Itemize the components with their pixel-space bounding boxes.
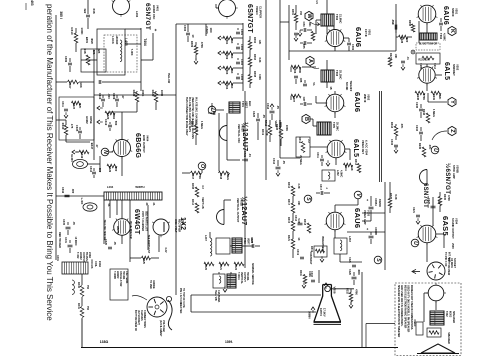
svg-text:FOCUS: FOCUS bbox=[90, 260, 93, 269]
svg-text:100: 100 bbox=[114, 167, 118, 172]
svg-text:TO 2ND: TO 2ND bbox=[149, 280, 152, 289]
trap box L302 bbox=[322, 170, 335, 181]
box peaking L303 bbox=[334, 238, 347, 254]
wire horizontal y51 IF strip B+ bbox=[289, 50, 396, 52]
svg-text:VERTICAL OSC: VERTICAL OSC bbox=[237, 124, 241, 143]
svg-text:IN LATE (801 CHASSIS) SETS: IN LATE (801 CHASSIS) SETS bbox=[188, 97, 191, 132]
svg-text:K: K bbox=[449, 29, 455, 33]
svg-text:VOLTAGE): VOLTAGE) bbox=[162, 320, 165, 332]
svg-text:1.5: 1.5 bbox=[315, 0, 319, 4]
svg-text:VERT: VERT bbox=[244, 101, 248, 108]
svg-text:100: 100 bbox=[405, 38, 409, 43]
wire 6AL5 right stub bbox=[436, 74, 442, 76]
svg-text:C412: C412 bbox=[104, 119, 108, 126]
resistor R305 bbox=[311, 32, 315, 41]
HV connector bbox=[168, 300, 172, 330]
svg-text:385 I: 385 I bbox=[59, 11, 63, 19]
svg-text:4.5MC: 4.5MC bbox=[339, 170, 342, 178]
svg-text:W: W bbox=[306, 13, 312, 19]
svg-text:.05: .05 bbox=[72, 221, 75, 225]
transformer T304 horizontal bbox=[420, 33, 437, 40]
svg-text:1000: 1000 bbox=[160, 90, 164, 97]
svg-text:R322: R322 bbox=[151, 90, 155, 97]
svg-text:.05: .05 bbox=[262, 114, 266, 118]
svg-text:R244: R244 bbox=[422, 109, 426, 116]
capacitor C233 bbox=[419, 131, 423, 133]
svg-text:V402A: V402A bbox=[240, 124, 244, 132]
svg-text:T302: T302 bbox=[335, 14, 339, 21]
wire vertical bus x280 bbox=[279, 0, 281, 158]
wire U to T401 bbox=[216, 109, 224, 111]
svg-text:R419: R419 bbox=[261, 129, 264, 136]
svg-text:C335: C335 bbox=[62, 219, 65, 226]
svg-text:C335: C335 bbox=[75, 125, 79, 132]
capacitor C304 bbox=[236, 76, 240, 78]
wire sound cathode bbox=[426, 243, 428, 262]
wire vertical bus x289 bbox=[288, 5, 290, 60]
arrow to socket bbox=[413, 271, 420, 273]
svg-text:BL BOTTOM GR: BL BOTTOM GR bbox=[419, 43, 438, 46]
capacitor C421 bbox=[244, 158, 248, 160]
wire N to tube bbox=[109, 151, 113, 153]
svg-text:S: S bbox=[305, 197, 311, 201]
svg-text:C425: C425 bbox=[250, 237, 253, 244]
resistor R425 bbox=[142, 256, 151, 260]
svg-text:SOUND: SOUND bbox=[345, 82, 347, 91]
half tube V205B bbox=[420, 170, 427, 185]
svg-text:R422: R422 bbox=[234, 264, 237, 271]
socket bottom view X2 bbox=[147, 297, 167, 317]
wire x250 links bbox=[249, 36, 251, 41]
svg-text:C213: C213 bbox=[433, 63, 436, 69]
left border wire bbox=[55, 15, 57, 260]
svg-text:R415: R415 bbox=[190, 121, 194, 128]
svg-text:R407: R407 bbox=[68, 81, 72, 89]
svg-text:L303: L303 bbox=[348, 236, 351, 242]
resistor R440 bbox=[80, 286, 84, 297]
half tube V402A vert osc bbox=[220, 126, 227, 141]
svg-text:BLUE TRACER: BLUE TRACER bbox=[129, 221, 132, 238]
svg-text:R417: R417 bbox=[191, 173, 195, 180]
resistor R331a bbox=[394, 126, 398, 136]
svg-text:1ST IF: 1ST IF bbox=[364, 29, 368, 37]
svg-text:1399.: 1399. bbox=[225, 340, 233, 344]
svg-text:T-402: T-402 bbox=[76, 252, 79, 259]
svg-text:T403: T403 bbox=[243, 238, 246, 244]
wire plate up bbox=[121, 112, 123, 140]
svg-text:VERT LIN: VERT LIN bbox=[201, 197, 204, 209]
tube V202 6AL5 bbox=[419, 67, 435, 83]
svg-text:12K: 12K bbox=[258, 40, 261, 45]
svg-text:SOCKET: SOCKET bbox=[453, 258, 456, 269]
wire tube right stub bbox=[344, 37, 350, 39]
capacitor C302 bbox=[236, 46, 240, 48]
svg-text:CLIPPER: CLIPPER bbox=[258, 6, 262, 18]
svg-text:R414: R414 bbox=[191, 199, 194, 206]
resistor R330 bbox=[279, 128, 283, 139]
transformer T202 bbox=[430, 311, 444, 325]
resistor R418 bbox=[219, 171, 230, 175]
wire T404 link bbox=[125, 43, 141, 45]
wire left chain bbox=[292, 196, 294, 203]
resistor R222 in box bbox=[422, 56, 434, 60]
svg-text:HIGH VOLT: HIGH VOLT bbox=[174, 219, 177, 233]
svg-text:R303: R303 bbox=[225, 68, 229, 75]
svg-text:VIDEO DET: VIDEO DET bbox=[361, 140, 365, 154]
svg-text:V404: V404 bbox=[145, 135, 149, 142]
ground arrow h1 bbox=[97, 106, 100, 110]
tube V404 6BG6G bbox=[114, 140, 131, 157]
svg-text:6AL5: 6AL5 bbox=[352, 139, 359, 157]
wire osc grid link bbox=[218, 160, 220, 171]
resistor R343 bbox=[64, 125, 68, 135]
svg-text:C85: C85 bbox=[302, 44, 306, 49]
resistor R324 ladder bbox=[135, 92, 139, 102]
ground arrow T401A bbox=[223, 289, 227, 292]
svg-text:400: 400 bbox=[71, 189, 75, 194]
wire x176 extension down bbox=[175, 182, 177, 295]
resistor R241 bbox=[431, 91, 441, 95]
wire vertical x362 bbox=[361, 272, 363, 348]
capacitor C411 bbox=[64, 108, 68, 110]
svg-text:4000: 4000 bbox=[357, 269, 360, 275]
capacitor C407 bbox=[98, 80, 100, 84]
capacitor C320 bbox=[352, 276, 357, 278]
svg-text:SND IF: SND IF bbox=[451, 8, 455, 17]
svg-text:+: + bbox=[153, 29, 158, 32]
tube V301 1st IF bbox=[327, 30, 344, 47]
svg-text:CONTRAST: CONTRAST bbox=[309, 252, 312, 265]
resistor R303 bbox=[223, 66, 233, 70]
svg-text:YELLOW: YELLOW bbox=[167, 73, 170, 84]
svg-text:221: 221 bbox=[92, 49, 96, 54]
svg-text:6SN7GT: 6SN7GT bbox=[246, 4, 253, 33]
wire CRT right y288 bbox=[331, 288, 354, 290]
wire box links bbox=[435, 301, 437, 310]
circled U node bbox=[208, 106, 216, 114]
wire Z curve bbox=[432, 131, 447, 140]
svg-text:FIELD: FIELD bbox=[413, 320, 415, 327]
svg-text:C419: C419 bbox=[210, 103, 213, 110]
tube V201 snd if bbox=[418, 5, 436, 23]
svg-text:L302: L302 bbox=[336, 170, 339, 176]
wire 6as5 plate right bbox=[436, 233, 444, 235]
electrolytic C308A bbox=[369, 206, 374, 208]
resistor R-bus bbox=[399, 35, 408, 39]
box AGC network bbox=[296, 137, 310, 157]
svg-text:R332: R332 bbox=[346, 288, 349, 294]
capacitor C-bus bbox=[394, 25, 396, 30]
resistor R407 bbox=[68, 80, 79, 84]
wire horizontal y24 bbox=[176, 23, 243, 25]
resistor R318 bbox=[307, 223, 311, 233]
corner tick bbox=[25, 3, 27, 10]
wire blue tracer bbox=[129, 200, 131, 262]
capacitor C335b bbox=[66, 226, 71, 228]
capacitor C am bbox=[401, 60, 405, 62]
wire vertical bus x141 bbox=[140, 28, 142, 91]
svg-text:R326: R326 bbox=[108, 166, 112, 173]
svg-text:R408: R408 bbox=[191, 183, 194, 190]
wire y213 link bbox=[362, 212, 385, 214]
svg-text:C302: C302 bbox=[351, 44, 355, 51]
svg-text:R301: R301 bbox=[291, 9, 294, 16]
svg-text:CONNECTIONS: CONNECTIONS bbox=[143, 310, 146, 328]
wire V down bbox=[357, 199, 359, 205]
wire vertical bus x243 bbox=[242, 23, 244, 91]
svg-text:YELLOW TRACER: YELLOW TRACER bbox=[103, 220, 106, 241]
ground arrow clip bbox=[194, 61, 198, 64]
svg-text:C301: C301 bbox=[240, 29, 244, 36]
svg-text:C212: C212 bbox=[419, 63, 422, 69]
focus coil loops bbox=[72, 280, 74, 294]
dashed box L406 bbox=[104, 35, 137, 72]
svg-text:R303: R303 bbox=[253, 54, 256, 61]
svg-text:150: 150 bbox=[299, 11, 302, 16]
svg-text:C314: C314 bbox=[266, 103, 270, 110]
svg-text:TO PIN 3 OF: TO PIN 3 OF bbox=[444, 252, 447, 267]
svg-text:T305: T305 bbox=[332, 122, 336, 128]
wire stub y60 bbox=[81, 59, 97, 61]
svg-text:.05: .05 bbox=[282, 160, 286, 164]
wire box top right ext bbox=[125, 28, 141, 30]
wire vertical bus x380 bbox=[378, 91, 380, 182]
resistor R315 chain bbox=[291, 221, 295, 231]
dashed box discriminator bbox=[416, 43, 440, 50]
dashed box speaker assembly bbox=[395, 283, 461, 356]
svg-text:V401: V401 bbox=[155, 5, 159, 12]
wire T303 top bbox=[326, 60, 328, 70]
1X2 plate bar bbox=[163, 222, 165, 232]
svg-text:V202: V202 bbox=[455, 64, 459, 71]
svg-text:VERT: VERT bbox=[246, 238, 249, 245]
svg-text:U: U bbox=[412, 241, 418, 245]
svg-text:C420: C420 bbox=[252, 111, 256, 118]
svg-text:100K: 100K bbox=[141, 90, 145, 97]
wire vertical x191 CRT feeds bbox=[190, 295, 192, 312]
wire x154 stub bbox=[152, 33, 154, 60]
wire vert out plate bbox=[223, 200, 225, 210]
svg-text:Y: Y bbox=[449, 100, 455, 104]
circled U2 node bbox=[431, 146, 439, 154]
focus coil hatched box bbox=[62, 262, 88, 274]
svg-text:U: U bbox=[432, 148, 438, 152]
svg-text:B: B bbox=[303, 117, 309, 121]
capacitor C409 bbox=[115, 98, 119, 100]
svg-text:C221: C221 bbox=[412, 207, 415, 214]
capacitor C420 bbox=[256, 118, 260, 120]
svg-text:4694: 4694 bbox=[112, 113, 116, 119]
svg-text:47: 47 bbox=[121, 96, 125, 99]
svg-text:SPEAKER: SPEAKER bbox=[452, 311, 455, 323]
wire socket arrow bbox=[132, 296, 147, 301]
svg-text:T303: T303 bbox=[335, 70, 339, 77]
box horizontal osc bbox=[97, 29, 125, 75]
resistor R320 bbox=[105, 111, 115, 115]
svg-text:C320: C320 bbox=[348, 269, 351, 275]
svg-text:8.2K: 8.2K bbox=[258, 57, 261, 62]
capacitor C321 bbox=[352, 264, 356, 266]
svg-text:.003: .003 bbox=[107, 93, 111, 99]
svg-text:SEE PARTS LIST: SEE PARTS LIST bbox=[147, 235, 150, 254]
resistor R245 bbox=[422, 147, 426, 157]
svg-text:C428: C428 bbox=[104, 239, 107, 245]
svg-text:2.2: 2.2 bbox=[307, 139, 310, 143]
svg-text:6.3V: 6.3V bbox=[164, 248, 167, 253]
svg-text:47: 47 bbox=[95, 145, 99, 148]
svg-text:& AGC V304: & AGC V304 bbox=[364, 140, 368, 156]
wire left stub x419 bbox=[418, 21, 420, 43]
resistor R230 bbox=[438, 197, 442, 206]
svg-text:C84: C84 bbox=[302, 22, 306, 27]
svg-text:C317: C317 bbox=[319, 184, 322, 191]
capacitor C230 bbox=[419, 108, 423, 110]
svg-text:10 MFD: 10 MFD bbox=[74, 237, 77, 246]
ground arrow video bbox=[320, 259, 324, 262]
svg-text:.01: .01 bbox=[248, 153, 252, 157]
ground arrow row 2 bbox=[218, 51, 221, 55]
svg-text:R321: R321 bbox=[287, 235, 290, 242]
wire damper cathode bbox=[121, 236, 123, 245]
svg-text:C318: C318 bbox=[310, 271, 313, 277]
capacitor C87 bbox=[303, 102, 305, 106]
svg-text:3.3K: 3.3K bbox=[297, 183, 300, 188]
wire Y left bbox=[428, 101, 447, 103]
speaker cone bbox=[421, 344, 455, 353]
resistor R422 bbox=[234, 262, 244, 266]
svg-text:AND USED ONLY IN COMBINATIONS.: AND USED ONLY IN COMBINATIONS. bbox=[400, 285, 403, 327]
ground arrow det bbox=[326, 163, 330, 166]
svg-text:RED TRACER: RED TRACER bbox=[58, 232, 61, 248]
svg-text:470K: 470K bbox=[355, 289, 358, 295]
capacitor C221 bbox=[416, 214, 420, 216]
socket M201 bottom view bbox=[427, 262, 445, 280]
resistor R408 bbox=[195, 187, 199, 197]
capacitor C220 bbox=[431, 205, 436, 207]
wire damper plate bbox=[121, 200, 123, 219]
svg-text:750: 750 bbox=[86, 306, 89, 311]
resistor R332 bbox=[349, 293, 353, 302]
svg-text:C233: C233 bbox=[415, 125, 419, 132]
svg-text:R317: R317 bbox=[287, 199, 290, 206]
svg-text:OUTPUT: OUTPUT bbox=[82, 252, 85, 263]
svg-text:C416: C416 bbox=[61, 187, 65, 194]
wire vertical x82 bottom left bbox=[81, 319, 83, 348]
ground arrow h3 bbox=[72, 150, 75, 154]
svg-text:25.1MC: 25.1MC bbox=[338, 70, 342, 79]
svg-text:10K: 10K bbox=[394, 54, 397, 59]
transformer T403 shaded bbox=[232, 238, 242, 253]
svg-text:R241: R241 bbox=[432, 94, 436, 101]
wire T302 to tube bbox=[333, 26, 335, 30]
capacitor C410 bbox=[101, 98, 105, 100]
svg-text:R306: R306 bbox=[293, 67, 297, 74]
svg-text:R245: R245 bbox=[418, 143, 422, 150]
svg-text:470K: 470K bbox=[447, 195, 450, 201]
wire det links bbox=[310, 146, 327, 148]
svg-text:R316: R316 bbox=[287, 182, 290, 189]
resistor R227 bbox=[388, 58, 392, 67]
svg-text:31K: 31K bbox=[230, 84, 234, 89]
svg-text:L-403: L-403 bbox=[80, 198, 83, 205]
capacitor C316 bbox=[298, 222, 303, 224]
resistor R323 bbox=[72, 101, 81, 105]
svg-text:10K: 10K bbox=[79, 82, 83, 88]
svg-text:½6SN7GT: ½6SN7GT bbox=[444, 163, 451, 194]
capacitor C301 bbox=[294, 32, 298, 34]
capacitor C408 bbox=[86, 14, 90, 16]
svg-text:6AU6: 6AU6 bbox=[353, 208, 362, 228]
ground arrow drv bbox=[64, 115, 68, 118]
wire CRT top feeds bbox=[318, 270, 320, 283]
svg-text:3.9K: 3.9K bbox=[350, 165, 353, 170]
box field coil bbox=[416, 322, 423, 335]
circled N node bbox=[101, 148, 109, 156]
svg-text:HORIZ: HORIZ bbox=[85, 116, 88, 124]
wire box outline horiz drive bbox=[59, 97, 94, 140]
svg-text:SEE PARTS LIST: SEE PARTS LIST bbox=[144, 211, 147, 232]
svg-text:BOTTOM VIEW OF: BOTTOM VIEW OF bbox=[134, 310, 137, 332]
ground arrow row 1 bbox=[218, 36, 221, 40]
resistor R420 bbox=[204, 262, 214, 266]
wire T401A stub bbox=[218, 272, 220, 274]
node A hexagon bbox=[306, 56, 314, 65]
svg-text:BOTTOM VIEW: BOTTOM VIEW bbox=[447, 258, 450, 276]
cluster above CRT bbox=[303, 275, 307, 284]
resistor R342 bbox=[79, 150, 89, 154]
transformer T305 bbox=[317, 122, 331, 135]
wire CRT feed lower y312 bbox=[191, 311, 316, 313]
capacitor C313 bbox=[276, 166, 281, 168]
svg-text:C313: C313 bbox=[272, 158, 276, 165]
svg-text:100K: 100K bbox=[80, 27, 84, 35]
resistor R415 bbox=[194, 125, 198, 135]
resistor R311 bbox=[344, 163, 353, 167]
svg-text:N: N bbox=[102, 150, 108, 154]
svg-text:HORIZ: HORIZ bbox=[79, 252, 82, 260]
resistor R313 bbox=[357, 164, 361, 173]
svg-text:648: 648 bbox=[83, 48, 87, 53]
svg-text:C304: C304 bbox=[183, 25, 187, 32]
svg-text:(SEE NOTE) AND (EARLY CHASSIS: (SEE NOTE) AND (EARLY CHASSIS bbox=[191, 97, 194, 139]
svg-text:R342: R342 bbox=[80, 152, 84, 159]
resistor R240 bbox=[415, 91, 425, 95]
svg-text:246Ω: 246Ω bbox=[98, 261, 101, 267]
svg-text:T304: T304 bbox=[439, 33, 443, 40]
svg-text:6AL5: 6AL5 bbox=[443, 62, 450, 80]
capacitor C406 bbox=[68, 62, 72, 64]
svg-text:31K: 31K bbox=[230, 39, 234, 44]
svg-text:Z: Z bbox=[449, 129, 455, 133]
wire IF link bbox=[302, 66, 316, 68]
wire r230 bbox=[439, 192, 441, 197]
wire yellow tracer bbox=[103, 200, 105, 244]
arrow into T303 bbox=[310, 66, 319, 69]
svg-text:R421: R421 bbox=[219, 264, 222, 271]
svg-text:270K: 270K bbox=[422, 94, 426, 100]
svg-text:VIDEO: VIDEO bbox=[255, 6, 259, 16]
capacitor C301 bbox=[236, 31, 240, 33]
svg-text:R301: R301 bbox=[225, 38, 229, 45]
oval L403 horiz eff bbox=[83, 203, 97, 211]
svg-text:.05: .05 bbox=[276, 105, 280, 109]
svg-text:R222 22K: R222 22K bbox=[418, 59, 429, 62]
wire osc cathode bbox=[226, 141, 228, 161]
wire horizontal y158 bbox=[280, 157, 300, 159]
svg-text:16TP4: 16TP4 bbox=[319, 308, 323, 316]
wire T302 top stub bbox=[326, 0, 328, 14]
resistor R316 bbox=[291, 186, 295, 196]
